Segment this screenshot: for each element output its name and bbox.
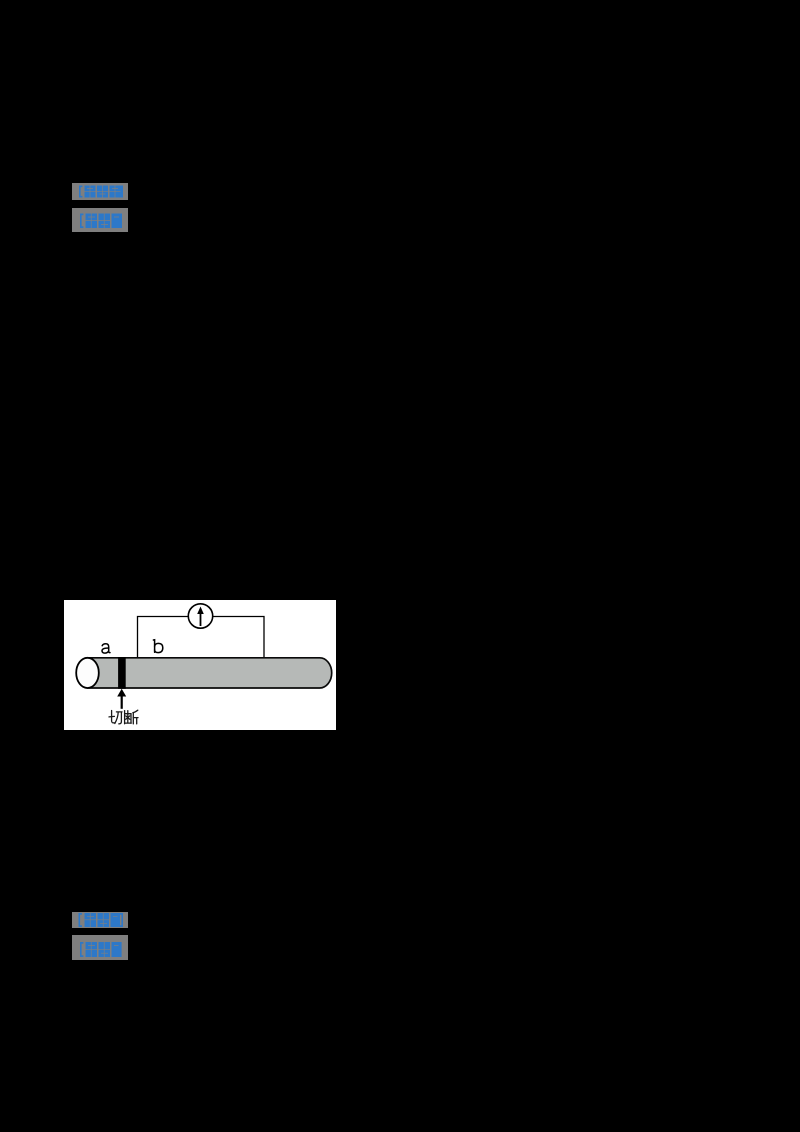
label a (vector serif glyph)	[102, 644, 110, 653]
断	[125, 710, 138, 724]
cut band (black stripe)	[118, 657, 126, 689]
galvanometer needle (up arrow)	[200, 613, 202, 627]
切	[109, 711, 122, 724]
galvanometer body (circle)	[188, 604, 212, 628]
axon cylinder body	[88, 658, 332, 688]
wire right: from galvanometer horizontal then vertical down to axon	[213, 617, 264, 659]
diagram white panel	[64, 600, 336, 730]
link button 解答 (bottom pair, first)	[72, 912, 128, 928]
label b (vector serif glyph)	[153, 640, 162, 653]
link button 解答 (top pair, first)	[72, 183, 128, 200]
link button 解説 (bottom pair, second)	[72, 935, 128, 960]
wire left: vertical from axon up and horizontal to galvanometer	[138, 617, 189, 659]
pointer arrow to cut	[121, 696, 123, 709]
caption 切断 (drawn as vector strokes)	[109, 710, 138, 724]
link button 解説 (top pair, second)	[72, 208, 128, 232]
axon left end cap (ellipse)	[76, 658, 99, 688]
